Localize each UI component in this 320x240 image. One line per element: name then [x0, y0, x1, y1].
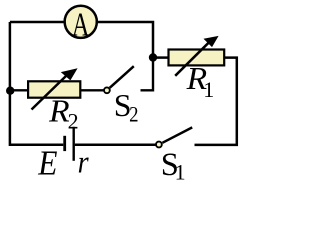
wire junction to R1: [153, 56, 169, 59]
switch S2: [104, 66, 134, 93]
wire S2 fixed terminal L: [141, 58, 154, 91]
label R2: [48, 93, 78, 133]
label S1: [161, 147, 186, 185]
svg-text:A: A: [72, 7, 90, 44]
wire left vertical and bottom to battery: [10, 22, 63, 145]
wire top-right with corner down to junction: [96, 22, 154, 54]
svg-text:2: 2: [129, 102, 138, 127]
label S2: [114, 87, 139, 127]
wire junction to R2: [10, 89, 28, 91]
label R1: [186, 61, 215, 102]
switch S1: [156, 127, 192, 147]
ammeter A: [65, 6, 97, 44]
svg-text:1: 1: [175, 160, 186, 182]
svg-text:r: r: [78, 143, 89, 179]
resistor R2: [28, 68, 80, 109]
svg-text:E: E: [37, 144, 57, 182]
wire top-left horizontal: [10, 21, 66, 24]
node junction dot top: [149, 53, 157, 61]
svg-text:2: 2: [68, 109, 79, 134]
svg-text:1: 1: [203, 77, 214, 102]
wire battery to S1 circle: [75, 143, 156, 146]
svg-text:R: R: [48, 93, 70, 128]
wire R1 to right side down to S1 fixed: [195, 58, 237, 145]
battery E r: [65, 127, 74, 161]
node junction dot left: [6, 87, 14, 95]
resistor R1: [169, 36, 225, 76]
wire R2 to S2 circle: [80, 89, 103, 91]
